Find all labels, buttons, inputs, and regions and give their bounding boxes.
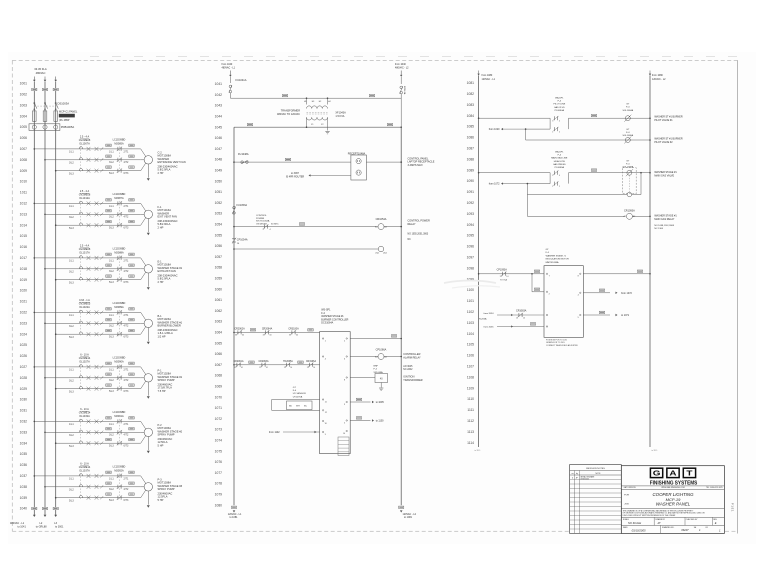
svg-text:1028: 1028 (20, 376, 28, 380)
svg-text:5/L3: 5/L3 (109, 445, 114, 448)
svg-text:1085: 1085 (467, 125, 475, 129)
svg-text:NOTE: NOTE (596, 473, 602, 475)
svg-text:to 1095: to 1095 (376, 401, 385, 404)
svg-text:1/L1: 1/L1 (69, 151, 74, 154)
svg-text:1/2 HP: 1/2 HP (158, 334, 166, 338)
svg-text:1088: 1088 (467, 157, 475, 161)
svg-text:14: 14 (266, 367, 268, 369)
svg-text:480VAC TO 120VAC: 480VAC TO 120VAC (277, 113, 300, 116)
svg-text:34: 34 (242, 335, 244, 337)
svg-text:UV SENSOR: UV SENSOR (293, 393, 306, 395)
svg-text:CP1066A: CP1066A (376, 348, 387, 351)
svg-text:1005: 1005 (20, 125, 28, 129)
svg-text:3/L2: 3/L2 (69, 325, 74, 328)
svg-text:1016: 1016 (20, 245, 28, 249)
svg-text:1025: 1025 (20, 343, 28, 347)
svg-text:1052: 1052 (215, 201, 223, 205)
svg-text:NC 2202: NC 2202 (403, 369, 413, 371)
svg-text:NO 1055,2001,3063: NO 1055,2001,3063 (408, 233, 429, 235)
svg-text:JOB: JOB (624, 503, 629, 505)
svg-text:1087: 1087 (467, 147, 475, 151)
svg-text:2/T1: 2/T1 (124, 205, 129, 208)
svg-text:3/L2: 3/L2 (69, 488, 74, 491)
svg-text:1030: 1030 (20, 398, 28, 402)
svg-text:1111: 1111 (467, 408, 474, 412)
svg-text:from 1040: from 1040 (395, 63, 406, 66)
svg-text:SPRAY PUMP: SPRAY PUMP (158, 487, 175, 491)
svg-text:OL1037A: OL1037A (79, 469, 90, 472)
svg-text:1072: 1072 (215, 417, 223, 421)
svg-text:1044: 1044 (215, 115, 223, 119)
svg-text:5/L3: 5/L3 (69, 227, 74, 230)
svg-text:1/L1: 1/L1 (69, 423, 74, 426)
svg-text:W: W (325, 423, 327, 425)
svg-text:M3092A: M3092A (114, 469, 124, 472)
svg-text:1070: 1070 (215, 395, 223, 399)
svg-text:2 HP: 2 HP (158, 225, 164, 229)
svg-text:13: 13 (284, 367, 286, 369)
svg-text:DATE: DATE (623, 526, 628, 529)
svg-text:1009: 1009 (20, 169, 28, 173)
svg-text:33: 33 (289, 335, 291, 337)
svg-text:JP: JP (657, 521, 660, 525)
svg-text:MAIN GAS VALVE: MAIN GAS VALVE (654, 175, 674, 178)
svg-text:6/T3: 6/T3 (124, 445, 129, 448)
svg-text:6/T3: 6/T3 (124, 390, 129, 393)
svg-text:to 1041: to 1041 (18, 526, 27, 529)
svg-text:TRANSFORMER: TRANSFORMER (403, 379, 423, 382)
svg-text:1053: 1053 (215, 212, 223, 216)
svg-text:1/L1: 1/L1 (69, 478, 74, 481)
svg-text:1029: 1029 (20, 387, 28, 391)
svg-text:1024: 1024 (20, 332, 28, 336)
svg-text:to 1081: to 1081 (230, 516, 239, 519)
svg-text:1003: 1003 (20, 103, 28, 107)
svg-text:1106: 1106 (467, 354, 474, 358)
svg-text:to 1115: to 1115 (475, 449, 481, 452)
svg-text:S/S TD1054A: S/S TD1054A (256, 220, 270, 223)
svg-text:BD: BD (289, 406, 292, 408)
svg-text:BC: BC (304, 406, 307, 408)
svg-text:1008: 1008 (20, 158, 28, 162)
svg-text:PILOT LINE: PILOT LINE (553, 104, 565, 106)
svg-text:1043: 1043 (215, 104, 223, 108)
svg-text:SCALE: SCALE (623, 518, 630, 521)
svg-text:1074: 1074 (215, 439, 223, 443)
svg-text:G: G (653, 469, 661, 477)
svg-text:1081: 1081 (467, 81, 475, 85)
svg-text:1/L1: 1/L1 (109, 205, 114, 208)
svg-text:3/L2: 3/L2 (109, 434, 114, 437)
svg-text:LC1D09BD: LC1D09BD (113, 193, 126, 196)
svg-text:1098: 1098 (467, 266, 475, 270)
svg-text:LC1D09BD: LC1D09BD (113, 248, 126, 251)
svg-text:MODULATION MOTOR: MODULATION MOTOR (546, 258, 570, 261)
svg-text:14: 14 (506, 276, 508, 278)
svg-text:1078: 1078 (215, 482, 223, 486)
svg-text:1/L1: 1/L1 (109, 259, 114, 262)
svg-text:1.5 KVA: 1.5 KVA (335, 115, 344, 118)
svg-text:M3087A: M3087A (114, 197, 124, 200)
svg-text:5/L3: 5/L3 (69, 172, 74, 175)
svg-text:3/L2: 3/L2 (109, 216, 114, 219)
svg-text:13: 13 (516, 317, 518, 319)
svg-text:120VAC - L2: 120VAC - L2 (652, 78, 666, 81)
svg-text:5/L3: 5/L3 (109, 336, 114, 339)
svg-text:03/10/2005: 03/10/2005 (632, 529, 646, 533)
svg-text:FU1048A: FU1048A (238, 153, 249, 156)
svg-text:LC1D09BD: LC1D09BD (113, 466, 126, 469)
svg-text:34: 34 (296, 335, 298, 337)
svg-text:1105: 1105 (467, 343, 474, 347)
svg-text:PDB1005A: PDB1005A (61, 125, 75, 129)
svg-text:1/L1: 1/L1 (109, 477, 114, 480)
svg-text:from 1080: from 1080 (482, 74, 493, 77)
svg-text:EXHAUST FAN: EXHAUST FAN (158, 269, 176, 273)
svg-text:NO 1088,1102,3068: NO 1088,1102,3068 (654, 225, 674, 227)
svg-text:1/L1: 1/L1 (109, 150, 114, 153)
svg-text:1073: 1073 (215, 428, 223, 432)
svg-text:0: 0 (572, 478, 573, 480)
svg-text:1080: 1080 (215, 503, 223, 507)
svg-text:1112: 1112 (467, 419, 474, 423)
svg-text:FOR: FOR (624, 494, 629, 496)
svg-text:1110: 1110 (467, 397, 474, 401)
svg-text:M3091A: M3091A (114, 415, 124, 418)
svg-text:2/T1: 2/T1 (124, 423, 129, 426)
svg-text:3/L2: 3/L2 (109, 270, 114, 273)
svg-text:1113: 1113 (467, 430, 474, 434)
svg-text:1039: 1039 (20, 496, 28, 500)
svg-text:1084: 1084 (467, 114, 475, 118)
svg-text:ON DELAY: ON DELAY (256, 222, 267, 225)
svg-text:6/T3: 6/T3 (124, 499, 129, 502)
svg-text:MCP-C1 PANEL: MCP-C1 PANEL (59, 111, 78, 114)
svg-text:CR3100A: CR3100A (288, 327, 299, 330)
svg-text:1001: 1001 (20, 82, 28, 86)
svg-text:1056: 1056 (215, 244, 223, 248)
svg-text:2 HP: 2 HP (158, 171, 164, 175)
svg-text:PILOT VALVE #2: PILOT VALVE #2 (654, 141, 673, 144)
svg-text:CR1093A: CR1093A (624, 210, 635, 213)
svg-text:PS1084A: PS1084A (555, 109, 565, 112)
svg-text:1086: 1086 (467, 136, 475, 140)
svg-text:PILOT VALVE #1: PILOT VALVE #1 (654, 119, 673, 122)
svg-text:6/T3: 6/T3 (124, 227, 129, 230)
svg-text:1094: 1094 (467, 223, 475, 227)
svg-text:1041: 1041 (215, 82, 223, 86)
svg-text:IS 4PR ROUTER: IS 4PR ROUTER (286, 176, 305, 179)
svg-text:1104: 1104 (467, 332, 474, 336)
svg-text:14: 14 (241, 367, 243, 369)
svg-text:1064: 1064 (215, 331, 223, 335)
svg-text:UV1070A: UV1070A (293, 395, 303, 398)
svg-text:1095: 1095 (467, 234, 475, 238)
svg-text:ENTRANCE VENT FAN: ENTRANCE VENT FAN (158, 160, 186, 164)
svg-text:5/L3: 5/L3 (109, 172, 114, 175)
svg-text:3 AMPS MAX: 3 AMPS MAX (408, 164, 423, 167)
svg-text:5/L3: 5/L3 (69, 336, 74, 339)
svg-text:1071: 1071 (215, 406, 223, 410)
svg-text:1108: 1108 (467, 375, 474, 379)
svg-text:BNF: BNF (374, 366, 379, 368)
svg-text:GAT DIVISION: GAT DIVISION (624, 486, 637, 489)
svg-text:2 HP: 2 HP (158, 280, 164, 284)
svg-text:CONTROL: CONTROL (256, 215, 267, 217)
svg-text:3/L2: 3/L2 (109, 379, 114, 382)
svg-text:M3088A: M3088A (114, 251, 124, 254)
svg-text:2/T1: 2/T1 (124, 314, 129, 317)
svg-text:1/L1: 1/L1 (69, 369, 74, 372)
svg-text:480VAC - L1: 480VAC - L1 (10, 522, 25, 525)
svg-text:33: 33 (263, 335, 265, 337)
svg-text:DISCLOSED WITHOUT WRITTEN PERM: DISCLOSED WITHOUT WRITTEN PERMISSION OF … (623, 515, 676, 517)
svg-text:5/L3: 5/L3 (69, 281, 74, 284)
svg-text:3/L2: 3/L2 (109, 161, 114, 164)
svg-text:1/L1: 1/L1 (109, 368, 114, 371)
svg-text:13: 13 (234, 367, 236, 369)
svg-text:OL1012A: OL1012A (79, 197, 90, 200)
svg-text:DCS1064A: DCS1064A (321, 322, 333, 325)
svg-text:4: 4 (559, 120, 560, 122)
svg-text:CR3106A: CR3106A (306, 360, 316, 363)
svg-text:WA-SP1: WA-SP1 (555, 151, 564, 154)
svg-text:MAIN GAS LINE: MAIN GAS LINE (551, 157, 568, 160)
svg-text:DRAWING NO.: DRAWING NO. (662, 526, 675, 529)
svg-text:1083: 1083 (467, 103, 475, 107)
svg-text:3/L2: 3/L2 (69, 270, 74, 273)
svg-text:13: 13 (259, 367, 261, 369)
svg-text:M3090A: M3090A (114, 360, 124, 363)
svg-text:1077: 1077 (215, 471, 223, 475)
svg-text:1082: 1082 (467, 92, 475, 96)
svg-text:CR2064A: CR2064A (262, 327, 273, 330)
svg-text:NC 1306: NC 1306 (654, 228, 663, 230)
svg-text:TEL 1-800-515-1025: TEL 1-800-515-1025 (706, 487, 723, 489)
svg-text:WA-SP1: WA-SP1 (555, 97, 564, 100)
svg-text:4/T2: 4/T2 (124, 270, 129, 273)
svg-text:3: 3 (552, 120, 553, 122)
svg-text:1057: 1057 (215, 255, 223, 259)
svg-text:1006: 1006 (20, 136, 28, 140)
svg-text:CR1083A: CR1083A (516, 310, 527, 313)
svg-text:from 2034: from 2034 (484, 312, 495, 315)
svg-text:POWER: POWER (256, 218, 265, 220)
svg-text:14: 14 (290, 367, 292, 369)
svg-text:WASHER PANEL: WASHER PANEL (656, 501, 691, 506)
svg-text:480VAC: 480VAC (36, 71, 46, 75)
svg-text:1034: 1034 (20, 441, 28, 445)
svg-text:CR2063A: CR2063A (259, 360, 269, 363)
svg-text:1015: 1015 (20, 234, 28, 238)
svg-text:WWW.GAT-FINISHING.COM: WWW.GAT-FINISHING.COM (661, 486, 685, 489)
svg-text:1065: 1065 (215, 341, 223, 345)
svg-text:3/L2: 3/L2 (69, 161, 74, 164)
svg-text:GAS PRESS: GAS PRESS (553, 163, 566, 166)
svg-text:DRAWN BY: DRAWN BY (655, 518, 665, 521)
svg-text:5/L3: 5/L3 (69, 390, 74, 393)
svg-text:SOL1084A: SOL1084A (622, 109, 633, 112)
svg-text:1038: 1038 (20, 485, 28, 489)
svg-text:3/L2: 3/L2 (69, 216, 74, 219)
svg-text:LC1D09BD: LC1D09BD (113, 357, 126, 360)
svg-text:CHECKED BY: CHECKED BY (686, 519, 698, 521)
svg-text:OL1032A: OL1032A (79, 415, 90, 418)
svg-text:1033: 1033 (20, 430, 28, 434)
svg-text:SPRAY PUMP: SPRAY PUMP (158, 378, 175, 382)
svg-text:1042: 1042 (215, 93, 223, 97)
svg-text:OL1007A: OL1007A (79, 142, 90, 145)
svg-text:M3089A: M3089A (114, 306, 124, 309)
svg-text:EXIT VENT FAN: EXIT VENT FAN (158, 214, 178, 218)
svg-text:TO 71A: TO 71A (500, 279, 508, 282)
svg-text:3: 3 (552, 175, 553, 177)
svg-text:1047: 1047 (215, 147, 223, 151)
svg-text:1031: 1031 (20, 409, 28, 413)
svg-text:1101: 1101 (467, 299, 474, 303)
svg-text:1063: 1063 (215, 320, 223, 324)
svg-text:MCB-2A: MCB-2A (403, 86, 406, 95)
svg-text:to 1100: to 1100 (376, 420, 384, 423)
svg-text:14: 14 (313, 367, 315, 369)
svg-text:to 1115: to 1115 (652, 449, 658, 452)
svg-text:LC1D09BD: LC1D09BD (113, 302, 126, 305)
svg-text:no: no (572, 473, 574, 475)
svg-text:1051: 1051 (215, 190, 223, 194)
svg-text:LC1D09BD: LC1D09BD (113, 139, 126, 142)
svg-text:1040: 1040 (20, 507, 28, 511)
svg-text:1017: 1017 (20, 256, 28, 260)
svg-text:from 1072: from 1072 (621, 292, 632, 295)
svg-text:1059: 1059 (215, 277, 223, 281)
svg-text:4/T2: 4/T2 (124, 325, 129, 328)
svg-text:4/T2: 4/T2 (124, 216, 129, 219)
svg-text:OL1027A: OL1027A (79, 360, 90, 363)
svg-text:1/L1: 1/L1 (69, 205, 74, 208)
svg-text:CR2061A: CR2061A (234, 360, 244, 363)
svg-text:13: 13 (307, 367, 309, 369)
svg-text:RELAY: RELAY (408, 223, 416, 226)
svg-text:1096: 1096 (467, 245, 475, 249)
svg-text:5/L3: 5/L3 (109, 499, 114, 502)
svg-text:1046: 1046 (215, 136, 223, 140)
svg-text:66207: 66207 (681, 528, 689, 532)
svg-text:1007: 1007 (20, 147, 28, 151)
svg-text:from 1072: from 1072 (489, 183, 500, 186)
svg-text:1103: 1103 (467, 321, 474, 325)
svg-text:3/L2: 3/L2 (109, 488, 114, 491)
svg-text:from 1080: from 1080 (652, 74, 663, 77)
svg-text:1002: 1002 (20, 93, 28, 97)
svg-text:from 2035: from 2035 (484, 326, 495, 329)
svg-text:CP1054A: CP1054A (237, 238, 248, 241)
svg-text:1012: 1012 (20, 202, 28, 206)
svg-text:1075: 1075 (215, 449, 223, 453)
svg-text:1020: 1020 (20, 289, 28, 293)
svg-text:FU1041A: FU1041A (236, 78, 247, 82)
svg-text:1069: 1069 (215, 385, 223, 389)
svg-text:2: 2 (559, 186, 560, 188)
svg-text:2/T1: 2/T1 (124, 477, 129, 480)
svg-text:5/L3: 5/L3 (69, 445, 74, 448)
svg-text:1036: 1036 (20, 463, 28, 467)
svg-text:1055: 1055 (215, 233, 223, 237)
svg-text:1026: 1026 (20, 354, 28, 358)
svg-text:1061: 1061 (215, 298, 223, 302)
svg-text:1068: 1068 (215, 374, 223, 378)
svg-text:MMTR1098A: MMTR1098A (546, 261, 559, 264)
svg-text:1097: 1097 (467, 256, 475, 260)
svg-text:1093: 1093 (467, 212, 475, 216)
svg-text:DS1003A: DS1003A (58, 102, 70, 106)
svg-text:120VAC - L1: 120VAC - L1 (482, 78, 496, 81)
svg-text:to GRL88: to GRL88 (36, 526, 47, 529)
svg-text:1013: 1013 (20, 212, 28, 216)
svg-text:5 HP: 5 HP (158, 443, 164, 447)
svg-text:33.45 FLA: 33.45 FLA (34, 67, 47, 71)
svg-text:1037: 1037 (20, 474, 28, 478)
svg-text:6/T3: 6/T3 (124, 172, 129, 175)
svg-text:1027: 1027 (20, 365, 28, 369)
svg-text:1049: 1049 (215, 169, 223, 173)
svg-text:1066: 1066 (215, 352, 223, 356)
svg-text:FU1053A: FU1053A (237, 204, 248, 207)
svg-text:to 3001: to 3001 (55, 526, 64, 529)
svg-text:OL1017A: OL1017A (79, 251, 90, 254)
svg-text:5/L3: 5/L3 (109, 281, 114, 284)
svg-text:2/T1: 2/T1 (124, 368, 129, 371)
svg-text:WASHER STAGE #1: WASHER STAGE #1 (546, 254, 567, 257)
svg-text:1/L1: 1/L1 (109, 423, 114, 426)
svg-text:4/T2: 4/T2 (124, 379, 129, 382)
svg-text:from 1102: from 1102 (269, 431, 280, 434)
svg-text:SOL1086A: SOL1086A (622, 134, 633, 137)
svg-text:to 1071: to 1071 (621, 314, 630, 317)
svg-text:CONNECT WHEN FIELD ADJUSTED: CONNECT WHEN FIELD ADJUSTED (546, 344, 579, 347)
svg-text:(Pu 485P: (Pu 485P (59, 119, 70, 122)
svg-text:3/L2: 3/L2 (109, 325, 114, 328)
svg-text:34: 34 (269, 335, 271, 337)
svg-text:MAIN GAS RELAY: MAIN GAS RELAY (654, 218, 674, 221)
svg-text:14: 14 (523, 317, 525, 319)
svg-text:1100: 1100 (467, 288, 474, 292)
svg-text:03/10/2005: 03/10/2005 (580, 478, 589, 480)
svg-text:NC: NC (408, 239, 412, 241)
svg-text:CP1093A: CP1093A (497, 268, 508, 271)
svg-text:1092: 1092 (467, 201, 475, 205)
svg-text:AO 3045: AO 3045 (403, 365, 413, 368)
svg-text:1: 1 (552, 131, 553, 133)
svg-text:PS1089A: PS1089A (555, 166, 565, 169)
svg-text:4/T2: 4/T2 (124, 434, 129, 437)
svg-text:OL1022A: OL1022A (79, 306, 90, 309)
svg-text:1019: 1019 (20, 278, 28, 282)
svg-text:30 SEC: 30 SEC (271, 223, 279, 225)
svg-text:LC1D09BD: LC1D09BD (113, 411, 126, 414)
svg-text:3/L2: 3/L2 (69, 434, 74, 437)
svg-text:1089: 1089 (467, 168, 475, 172)
svg-text:GAS VLVS: GAS VLVS (554, 106, 565, 109)
svg-text:1048: 1048 (215, 158, 223, 162)
svg-text:NO SCALE: NO SCALE (628, 521, 641, 525)
svg-text:2/T1: 2/T1 (124, 150, 129, 153)
svg-text:1: 1 (552, 186, 553, 188)
svg-text:FINISHING SYSTEMS: FINISHING SYSTEMS (650, 480, 698, 486)
svg-text:from 1020: from 1020 (489, 128, 500, 131)
svg-text:480VAC - L2: 480VAC - L2 (395, 67, 409, 70)
svg-text:2/T1: 2/T1 (124, 259, 129, 262)
svg-text:1062: 1062 (215, 309, 223, 313)
